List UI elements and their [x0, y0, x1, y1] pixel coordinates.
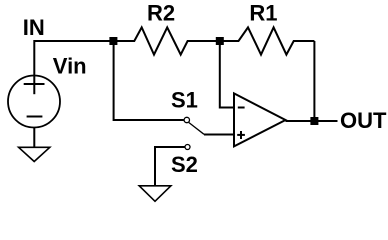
wire	[313, 41, 315, 121]
junction C	[310, 117, 318, 125]
svg-text:R1: R1	[249, 1, 277, 26]
svg-text:S1: S1	[171, 88, 198, 113]
ground	[139, 186, 171, 202]
wire	[286, 120, 338, 122]
junction B	[216, 37, 224, 45]
ground	[19, 147, 50, 161]
wire	[33, 127, 35, 148]
switch S1	[184, 117, 204, 134]
wire	[204, 134, 234, 136]
svg-text:R2: R2	[147, 1, 175, 26]
resistor R1	[220, 27, 315, 54]
junction A	[109, 37, 117, 45]
wire	[114, 41, 184, 120]
wire	[155, 147, 185, 186]
wire	[33, 40, 35, 94]
resistor R2	[113, 27, 220, 54]
svg-text:Vin: Vin	[53, 54, 87, 79]
voltage source V1	[8, 76, 60, 128]
svg-text:OUT: OUT	[340, 108, 387, 133]
svg-text:S2: S2	[171, 152, 198, 177]
wire	[220, 41, 234, 108]
svg-text:IN: IN	[23, 15, 45, 40]
wire	[34, 40, 114, 42]
op-amp U1	[234, 93, 286, 146]
switch S2	[185, 145, 190, 150]
